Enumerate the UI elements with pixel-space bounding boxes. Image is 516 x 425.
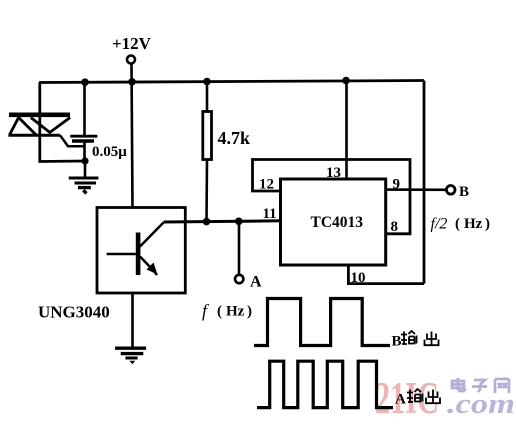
IC inner box TC4013 <box>281 179 386 265</box>
svg-text:+12V: +12V <box>112 34 152 53</box>
transistor Q1 collector <box>140 223 164 247</box>
node junction dot A-tap <box>235 218 243 226</box>
node junction dot cap-top <box>81 78 89 86</box>
terminal B circle <box>446 186 455 195</box>
transistor Q1 base lead <box>107 253 136 256</box>
svg-text:): ) <box>485 216 490 232</box>
svg-text:(: ( <box>217 304 222 320</box>
svg-text:B: B <box>392 334 402 350</box>
waveform B output <box>254 299 390 346</box>
watermark dian-zi-wang <box>452 378 509 393</box>
svg-text:4.7k: 4.7k <box>218 128 251 148</box>
sensor right vee <box>31 118 70 133</box>
terminal A circle <box>235 275 243 283</box>
svg-text:Hz: Hz <box>226 304 245 320</box>
sensor pickup bar <box>9 113 70 118</box>
ground G2 under module <box>115 293 146 364</box>
transistor Q1 base bar <box>136 233 141 276</box>
wire A tap down <box>238 221 241 274</box>
svg-text:TC4013: TC4013 <box>311 214 364 231</box>
svg-text:11: 11 <box>263 206 277 222</box>
wire +12V terminal to bus and down to UNG3040 box <box>132 64 133 209</box>
node junction dot pin13 <box>342 77 350 85</box>
svg-text:A: A <box>250 274 262 291</box>
capacitor C1 bottom lead <box>83 142 86 162</box>
sensor left triangle <box>10 118 37 136</box>
wire pin 9 to terminal B <box>386 188 447 191</box>
sensor baseline <box>8 134 60 137</box>
waveform A output <box>257 361 393 407</box>
svg-text:B: B <box>459 184 469 200</box>
svg-text:): ) <box>247 304 252 320</box>
node junction dot ground <box>81 157 88 164</box>
capacitor C1 top plate <box>70 135 97 138</box>
svg-text:13: 13 <box>326 165 341 181</box>
node bus-left drop <box>40 83 85 162</box>
wire sensor to capacitor <box>60 135 85 146</box>
node junction dot resistor-bottom <box>203 218 211 226</box>
wire power bus <box>39 81 424 83</box>
amplifier module box UNG3040 <box>97 208 185 294</box>
svg-text:A: A <box>395 392 406 408</box>
svg-text:.com: .com <box>447 388 515 420</box>
svg-text:8: 8 <box>391 219 399 235</box>
svg-text:Hz: Hz <box>464 216 483 232</box>
capacitor C1 top lead <box>83 83 86 136</box>
node junction dot resistor-top <box>203 78 211 86</box>
wire collector to pin 11 <box>164 221 281 222</box>
transistor Q1 emitter <box>140 257 151 269</box>
svg-text:(: ( <box>455 216 460 232</box>
svg-text:12: 12 <box>259 177 274 193</box>
wire pin 10 to right vertical <box>348 265 424 284</box>
ground G1 under capacitor <box>69 161 99 195</box>
capacitor C1 bottom plate <box>72 139 94 142</box>
wire right-side vertical <box>423 81 426 284</box>
resistor R1 body <box>203 112 212 160</box>
wire bus to pin 13 <box>345 81 348 180</box>
+12V terminal circle <box>127 56 135 64</box>
IC outer frame TC4013 <box>253 160 411 234</box>
resistor R1 leads <box>206 82 209 113</box>
svg-text:0.05μ: 0.05μ <box>92 144 127 160</box>
svg-text:UNG3040: UNG3040 <box>38 303 110 322</box>
node junction dot +12V <box>128 78 136 86</box>
svg-text:f/2: f/2 <box>431 216 448 233</box>
